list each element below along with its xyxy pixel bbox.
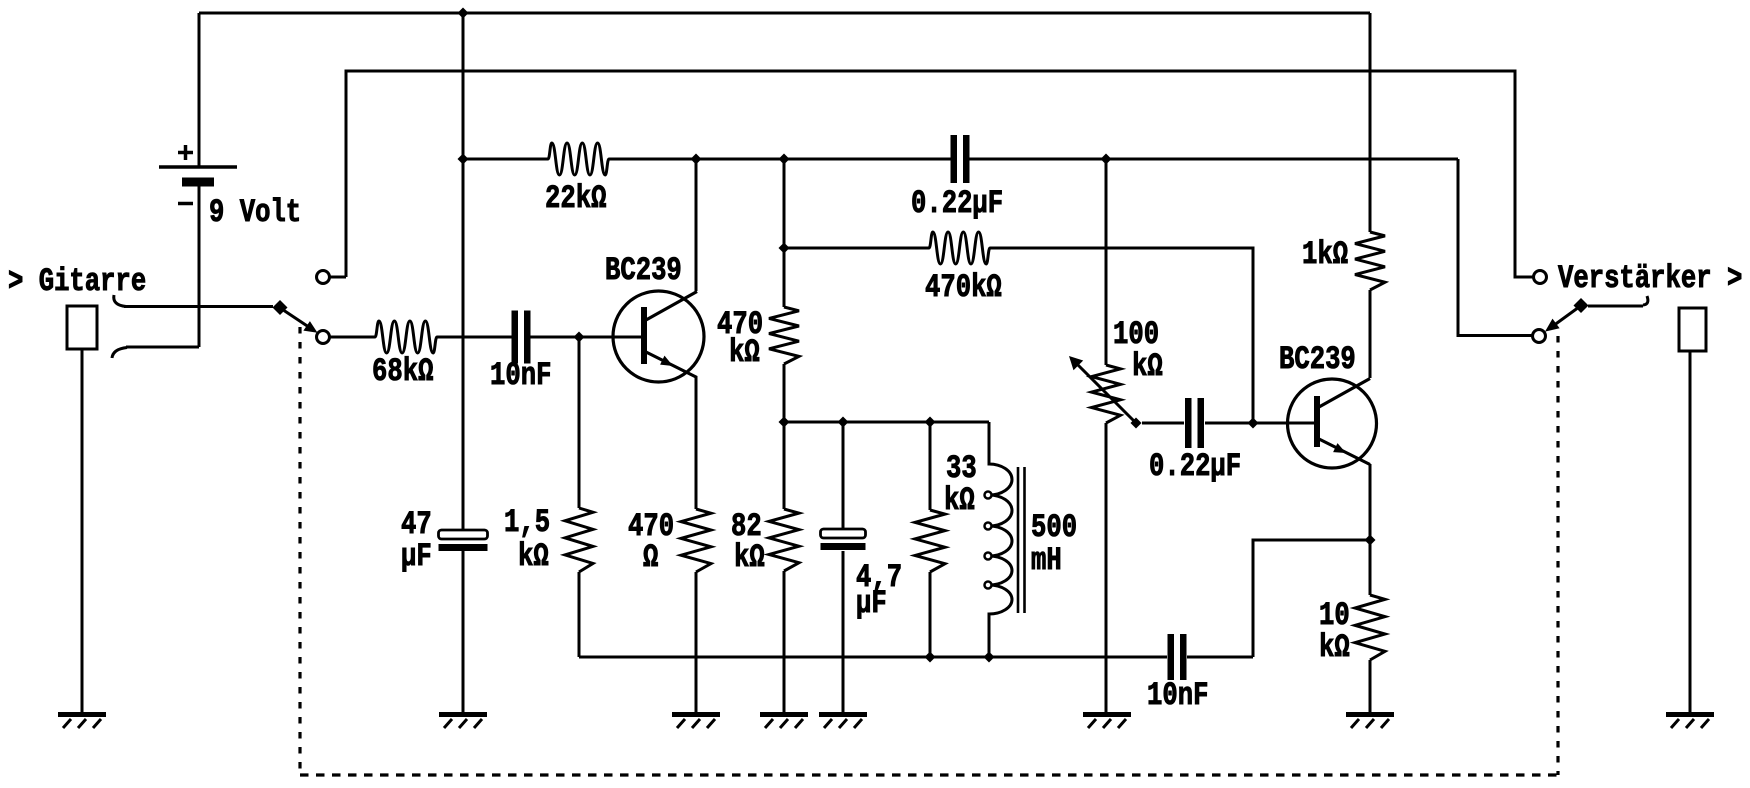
- svg-text:47: 47: [401, 506, 432, 542]
- svg-text:Verstärker >: Verstärker >: [1558, 260, 1742, 296]
- svg-text:0.22µF: 0.22µF: [911, 185, 1003, 221]
- svg-text:kΩ: kΩ: [734, 539, 765, 575]
- svg-text:33: 33: [946, 450, 977, 486]
- svg-text:BC239: BC239: [1279, 341, 1356, 377]
- svg-text:470kΩ: 470kΩ: [925, 269, 1002, 305]
- svg-text:µF: µF: [401, 538, 432, 574]
- svg-text:100: 100: [1113, 316, 1159, 352]
- svg-text:10: 10: [1319, 597, 1350, 633]
- svg-text:9 Volt: 9 Volt: [209, 194, 301, 230]
- svg-text:10nF: 10nF: [1147, 677, 1208, 713]
- svg-text:Ω: Ω: [643, 539, 658, 575]
- svg-text:1,5: 1,5: [504, 504, 550, 540]
- svg-text:kΩ: kΩ: [944, 482, 975, 518]
- svg-text:1kΩ: 1kΩ: [1302, 236, 1348, 272]
- svg-text:500: 500: [1031, 509, 1077, 545]
- svg-text:> Gitarre: > Gitarre: [8, 263, 146, 299]
- svg-text:kΩ: kΩ: [1319, 629, 1350, 665]
- svg-text:kΩ: kΩ: [729, 334, 760, 370]
- svg-text:22kΩ: 22kΩ: [545, 180, 606, 216]
- svg-text:kΩ: kΩ: [518, 538, 549, 574]
- svg-text:kΩ: kΩ: [1132, 348, 1163, 384]
- svg-text:BC239: BC239: [605, 252, 682, 288]
- svg-text:µF: µF: [856, 585, 887, 621]
- svg-text:mH: mH: [1031, 542, 1062, 578]
- svg-text:10nF: 10nF: [490, 357, 551, 393]
- svg-text:68kΩ: 68kΩ: [372, 353, 433, 389]
- svg-text:0.22µF: 0.22µF: [1149, 448, 1241, 484]
